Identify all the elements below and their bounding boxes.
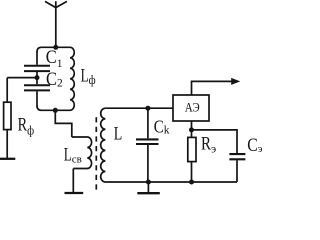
svg-text:АЭ: АЭ (185, 101, 200, 115)
svg-text:L: L (114, 124, 123, 145)
